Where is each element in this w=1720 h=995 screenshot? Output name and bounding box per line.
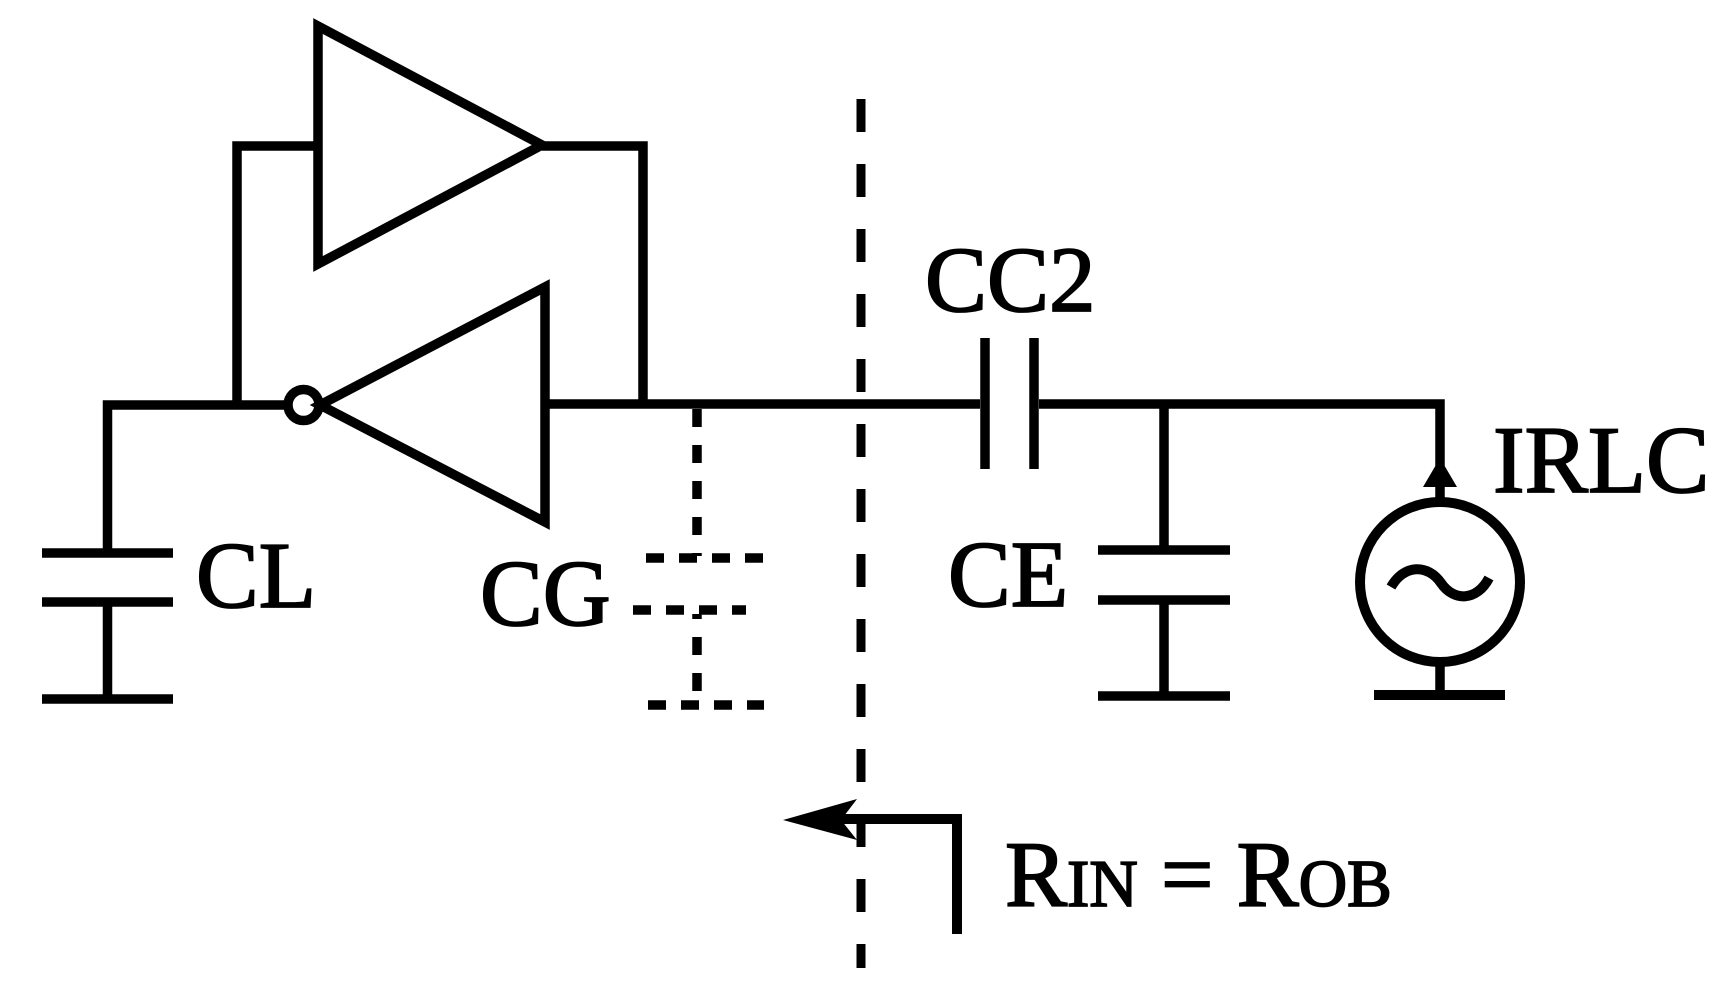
- ground bar under current source: [1374, 690, 1505, 700]
- arrowhead on current source (pointing up): [1423, 458, 1457, 487]
- wire CC2 to current source with corner: [1039, 404, 1440, 502]
- dashed stem of CG: [692, 409, 702, 556]
- capacitor CC2 right plate: [1029, 338, 1039, 469]
- wire CL to ground: [103, 602, 113, 699]
- svg-text:CE: CE: [948, 523, 1068, 627]
- svg-text:IRLC: IRLC: [1493, 407, 1709, 513]
- wire left node to CL: [108, 405, 289, 550]
- wire from buffer output down to main node: [542, 146, 643, 404]
- capacitor CE top plate: [1098, 545, 1230, 555]
- main wire from inverter input to CC2: [545, 399, 980, 409]
- current source IRLC circle: [1360, 502, 1520, 662]
- op-amp A1 top buffer triangle: [318, 26, 542, 264]
- wire CE to ground: [1159, 600, 1169, 696]
- inverter output bubble: [288, 390, 319, 421]
- dashed capacitor CG top plate: [646, 553, 763, 563]
- dashed wire CG to ground: [692, 614, 702, 700]
- wire current source to ground: [1435, 662, 1445, 692]
- Rin measurement arrow elbow: [840, 819, 957, 934]
- capacitor CE bottom plate: [1098, 595, 1230, 605]
- wire input of top buffer with left feedback vertical: [237, 146, 318, 405]
- svg-text:CG: CG: [480, 542, 611, 646]
- dashed boundary line: [857, 99, 866, 968]
- dashed capacitor CG bottom plate: [633, 605, 746, 615]
- sine symbol inside current source: [1391, 569, 1489, 596]
- svg-text:CL: CL: [196, 524, 316, 628]
- ground bar under CL: [42, 694, 173, 704]
- svg-text:CC2: CC2: [925, 229, 1096, 332]
- capacitor CL bottom plate: [42, 597, 173, 607]
- ground bar under CE: [1098, 691, 1230, 701]
- capacitor CL top plate: [42, 548, 173, 558]
- dashed ground bar under CG: [648, 700, 764, 710]
- op-amp A2 inverter triangle (pointing left): [320, 287, 545, 522]
- Rin arrowhead (pointing left): [783, 799, 857, 840]
- capacitor CC2 left plate: [980, 338, 990, 469]
- wire node to CE: [1159, 404, 1169, 548]
